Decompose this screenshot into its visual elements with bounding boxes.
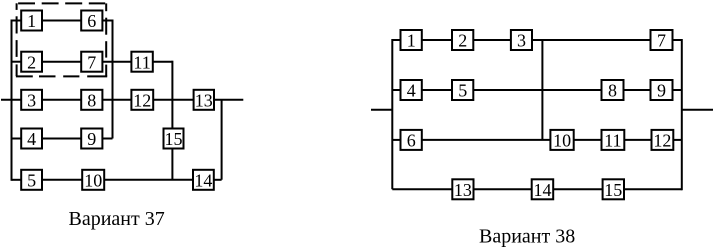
wire block 6 to right bus [102,20,112,22]
wire block 13 to block 14 [474,188,532,190]
svg-text:7: 7 [657,31,666,51]
svg-text:9: 9 [87,129,96,149]
block 12 [131,90,153,110]
wire block 14 to block 15 [553,188,602,190]
svg-text:6: 6 [407,131,416,151]
wire block 5 to block 8 [473,89,601,91]
svg-text:9: 9 [657,81,666,101]
svg-text:14: 14 [194,171,212,191]
wire block 9 to right bus [102,138,113,140]
wire block 2 to block 7 [42,61,81,63]
block 13 [452,179,473,199]
wire block 10 to block 14 [104,179,193,181]
output wire of block 13 [214,99,243,101]
wire block 3 to block 7 [532,39,651,41]
wire block 6 to block 10 [422,139,551,141]
block 10 [550,130,573,150]
wire drop from block 11 to row 3 [171,61,173,100]
wire block 15 to right bus [624,188,682,190]
block 7 [651,30,673,50]
block 15 [603,179,624,199]
block 4 [401,80,422,100]
svg-text:Вариант 38: Вариант 38 [479,225,575,247]
block 13 [194,90,214,110]
svg-text:14: 14 [534,180,552,200]
svg-text:2: 2 [27,52,36,72]
svg-text:13: 13 [454,180,472,200]
svg-text:8: 8 [87,91,96,111]
wire bus to block 4 [392,89,400,91]
wire block 8 to block 9 [624,89,651,91]
svg-text:3: 3 [27,91,36,111]
block 3 [511,30,532,50]
svg-text:1: 1 [27,11,36,31]
block 11 [602,130,625,150]
block 8 [602,80,624,100]
output collector bus wire [221,100,223,180]
wire block 1 to block 6 [42,20,81,22]
svg-text:4: 4 [27,129,36,149]
wire bus to block 13 [392,188,452,190]
svg-text:4: 4 [407,81,416,101]
svg-text:1: 1 [407,31,416,51]
wire bus to block 1 [392,39,400,41]
block 7 [81,52,102,72]
block 3 [21,90,42,110]
left bus wire [391,39,393,189]
wire block 3 to block 8 [42,99,81,101]
svg-text:6: 6 [87,11,96,31]
block 15 [164,129,184,149]
wire bus to block 6 [392,139,400,141]
wire block 1 to block 2 [422,39,452,41]
block 14 [532,179,554,199]
svg-text:8: 8 [608,81,617,101]
svg-text:3: 3 [517,31,526,51]
wire block 7 to right bus [673,39,682,41]
output wire [682,109,713,111]
input wire [371,109,392,111]
wire block 4 to block 9 [42,138,81,140]
right collector bus wire [112,20,114,139]
block 10 [82,170,104,190]
wire bus to block 1 [12,20,22,22]
block 5 [452,80,473,100]
block 8 [81,90,102,110]
svg-text:15: 15 [604,180,622,200]
svg-text:11: 11 [604,131,621,151]
block 5 [21,170,42,190]
block 6 [401,130,422,150]
svg-text:12: 12 [133,91,151,111]
wire block 7 to block 11 [102,61,131,63]
svg-text:5: 5 [27,171,36,191]
wire block 11 right [153,61,173,63]
svg-text:10: 10 [553,131,571,151]
svg-text:7: 7 [87,52,96,72]
wire block 14 to output bus [214,179,222,181]
wire block 5 to block 10 [42,179,82,181]
wire block 4 to block 5 [422,89,452,91]
svg-text:12: 12 [653,131,671,151]
svg-text:2: 2 [458,31,467,51]
block 6 [81,11,102,31]
dashed group outline around blocks 1 2 6 7 [16,3,107,76]
left bus wire [11,20,13,181]
block 1 [21,11,42,31]
wire bus to block 4 [12,138,22,140]
wire block 2 to block 3 [473,39,511,41]
block 12 [652,130,674,150]
svg-text:5: 5 [458,81,467,101]
wire block 10 to block 11 [574,139,602,141]
input wire [1,99,21,101]
right bus wire [681,39,683,190]
svg-text:11: 11 [133,52,150,72]
block 2 [452,30,473,50]
middle vertical wire [541,40,543,140]
block 9 [81,129,102,149]
wire block 8 to block 12 [102,99,131,101]
wire block 11 to block 12 [624,139,651,141]
block 14 [193,170,214,190]
wire block 9 to right bus [673,89,682,91]
wire block 12 to block 13 [153,99,194,101]
svg-text:13: 13 [195,91,213,111]
svg-text:15: 15 [165,129,183,149]
block 2 [21,52,42,72]
block 11 [131,52,152,72]
wire bus to block 2 [12,61,22,63]
svg-text:Вариант 37: Вариант 37 [69,208,165,230]
wire bus to block 5 [12,179,22,181]
wire block 15 to row 5 [171,149,173,180]
svg-text:10: 10 [84,171,102,191]
block 4 [21,129,42,149]
wire riser row3 to block 15 [171,100,173,129]
block 1 [401,30,422,50]
block 9 [651,80,673,100]
wire block 12 to right bus [673,139,682,141]
